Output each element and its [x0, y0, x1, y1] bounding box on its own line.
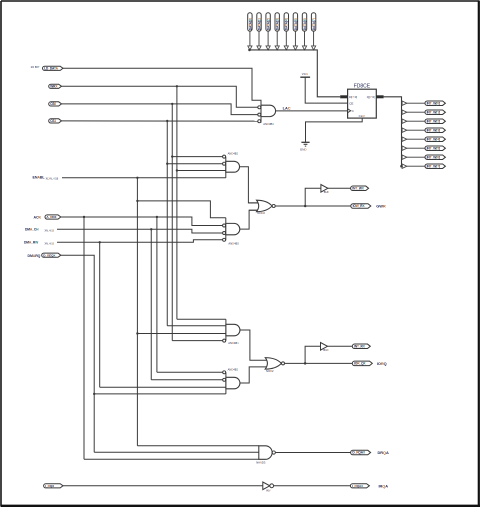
output pin Q2 [425, 119, 445, 124]
svg-text:DATA[1]: DATA[1] [257, 18, 261, 30]
wire tap to output pin Q1 [407, 111, 425, 113]
input pin I2 [49, 84, 62, 88]
bus tap Q0 [402, 101, 407, 105]
node: bus left end junction [248, 49, 251, 52]
svg-text:DATA[4]: DATA[4] [285, 18, 289, 30]
input pin DMARQ [42, 253, 61, 257]
wire column from ACK net (left tap) [83, 217, 85, 459]
wire to U7 input 4 [172, 340, 223, 342]
wire ENABL branch to U4 top input [137, 201, 225, 218]
output pin INT_RX [352, 344, 370, 349]
wire ENABL to gate U3 input 4 [62, 177, 226, 179]
wire to U8 input 2 [151, 379, 223, 381]
pin clock wedge [348, 109, 351, 113]
wire VCC to CE [305, 77, 347, 103]
svg-text:XN_4:1B: XN_4:1B [45, 229, 55, 232]
svg-text:CE: CE [349, 101, 353, 105]
node: tap DMA_RW [99, 241, 101, 243]
wire pin P0 to bus [249, 31, 251, 46]
wire U5 output to output pins [275, 205, 351, 207]
wire tap to output pin Q0 [407, 102, 425, 104]
wire tap to output pin Q2 [407, 120, 425, 122]
node: T DMARQ to U8 [93, 393, 95, 395]
wire column from I3 net [171, 104, 173, 341]
node: T on I3 column [171, 155, 173, 157]
svg-text:INT_W[3]: INT_W[3] [427, 128, 440, 132]
wire column from DMA_CH net [150, 229, 152, 379]
svg-text:DMA_CH: DMA_CH [25, 228, 39, 232]
wire to U8 input 4 [94, 393, 226, 395]
svg-text:IORQ: IORQ [377, 361, 387, 366]
svg-text:AND4B3: AND4B3 [228, 241, 239, 245]
wire ACK [61, 217, 223, 226]
wire tap to output pin Q3 [407, 129, 425, 131]
bus tap Q2 [402, 119, 407, 123]
svg-text:WRX: WRX [50, 85, 58, 89]
wire column from DMA_RW net [99, 242, 101, 387]
svg-text:BUF: BUF [324, 190, 330, 194]
svg-text:IOW_RX: IOW_RX [353, 204, 366, 208]
svg-text:XLXN_4:1B: XLXN_4:1B [46, 177, 59, 180]
input pin I3 [49, 102, 62, 106]
wire pin P2 to bus [267, 31, 269, 46]
wire U3 output to U5 input 1 [240, 167, 259, 203]
node: tap I4 [166, 120, 168, 122]
svg-text:NOR2: NOR2 [257, 211, 265, 215]
svg-text:D_RQAX: D_RQAX [352, 451, 366, 455]
wire to U11 input 2 [94, 451, 259, 453]
and gate U8 AND4B2 [225, 372, 227, 394]
svg-text:IOR_QX: IOR_QX [354, 362, 366, 366]
svg-text:BUF: BUF [323, 348, 329, 352]
output pin Q7 [425, 164, 445, 169]
pin D[7:0] bus stub [340, 95, 347, 98]
svg-text:DATA[7]: DATA[7] [312, 18, 316, 30]
output pin Q4 [425, 137, 445, 142]
svg-text:INT_W[5]: INT_W[5] [427, 146, 440, 150]
output pin Q6 [425, 155, 445, 160]
wire Q[7:0] bus [384, 97, 402, 166]
output pin Q0 [425, 101, 445, 106]
input pin P4 (top header) [284, 13, 288, 31]
input pin ACK [45, 215, 61, 219]
output pin INT_WX [351, 186, 369, 191]
svg-text:DATA[3]: DATA[3] [276, 18, 280, 30]
wire U4 output to U5 input 2 [240, 210, 259, 229]
wire U6 out [328, 187, 351, 189]
wire pin P4 to bus [285, 31, 287, 46]
wire tap to output pin Q5 [407, 147, 425, 149]
wire to U7 input 2 [167, 325, 226, 327]
wire to U11 input 3 [84, 458, 259, 460]
output pin Q5 [425, 146, 445, 151]
wire to U7 input 3 [137, 333, 226, 335]
wire U2 output LAC to FD8CE clock [276, 110, 348, 112]
node: T on I2 column [176, 169, 178, 171]
node: tap DMA_CH [150, 228, 152, 230]
wire branch up to buffer U6 [305, 188, 321, 206]
svg-text:AND3B3: AND3B3 [263, 122, 274, 126]
wire CLR to ground [306, 118, 363, 142]
svg-text:NAND3: NAND3 [256, 461, 266, 465]
input pin I1 [42, 66, 63, 70]
node: buffer branch 2 [304, 362, 307, 365]
bus tap Q6 [402, 155, 407, 159]
wire I1 to gate U2 top input [63, 68, 261, 105]
svg-text:INT_W[6]: INT_W[6] [427, 155, 440, 159]
inverter U12 INV [263, 482, 270, 490]
svg-text:INT_RX: INT_RX [354, 345, 366, 349]
wire U10 out [328, 345, 353, 347]
bus tap Q1 [402, 110, 407, 114]
svg-text:VCC: VCC [302, 72, 309, 76]
svg-text:AND4B2: AND4B2 [228, 368, 239, 372]
svg-text:Q[7:0]: Q[7:0] [367, 95, 375, 99]
node: T ENABL to U7 [136, 332, 138, 334]
svg-text:AND4B1: AND4B1 [228, 341, 239, 345]
node: tap I3 [171, 103, 173, 105]
svg-text:CLR: CLR [359, 114, 366, 118]
input pin P5 (top header) [293, 13, 297, 31]
and gate U7 AND4B1 [225, 319, 227, 340]
input pin P1 (top header) [257, 13, 261, 31]
wire tap to output pin Q4 [407, 138, 425, 140]
svg-text:ACK: ACK [34, 215, 42, 219]
svg-text:AND4B2: AND4B2 [228, 152, 239, 156]
wire to U7 input 1 [177, 318, 226, 320]
wire to U8 input 1 [157, 371, 223, 373]
svg-text:GWR: GWR [376, 204, 386, 209]
wire I4 to gate U2 input 3 [62, 120, 258, 122]
node: tap ENABL [136, 177, 138, 179]
buffer U10 [321, 343, 328, 351]
wire U9 output to output pins [285, 362, 353, 364]
svg-text:NOR2: NOR2 [266, 369, 274, 373]
svg-text:ENABL: ENABL [33, 176, 46, 180]
wire stub U5 in2 [249, 209, 259, 211]
and gate U4 AND4B3 [225, 218, 227, 241]
svg-text:D[7:0]: D[7:0] [349, 95, 357, 99]
flip-flop U1 FD8CE [348, 89, 377, 118]
wire to U8 input 3 [100, 386, 226, 388]
svg-text:D_REQX: D_REQX [43, 253, 56, 257]
input pin P0 (top header) [248, 13, 252, 31]
bus tap Q5 [402, 146, 407, 150]
svg-text:16 BIT: 16 BIT [31, 65, 40, 69]
ground symbol [301, 141, 309, 143]
wire branch up to buffer U10 [305, 346, 320, 363]
output pin DRQA [351, 450, 371, 455]
svg-text:LAC: LAC [283, 105, 291, 110]
svg-text:DATA[2]: DATA[2] [267, 18, 271, 30]
input pin P7 (top header) [311, 13, 315, 31]
svg-text:DRQA: DRQA [378, 450, 390, 455]
wire to U3 input 1 [172, 156, 222, 158]
wire to U3 input 3 [177, 170, 226, 172]
input pin I4 [49, 119, 62, 123]
svg-text:IRQA: IRQA [379, 484, 389, 489]
bus tap Q3 [402, 128, 407, 132]
wire U11 output to DRQA pin [275, 452, 350, 454]
wire DMA_RW [57, 240, 223, 243]
output pin Q1 [425, 110, 445, 115]
svg-text:INV: INV [266, 488, 271, 492]
wire DMARQ to column [61, 255, 94, 452]
svg-text:DATA[5]: DATA[5] [294, 18, 298, 30]
svg-text:GND: GND [300, 148, 308, 152]
node: T on I4 column [166, 163, 168, 165]
input pin P3 (top header) [275, 13, 279, 31]
wire U7 output to U9 input 1 [240, 330, 268, 360]
wire stub U5 in1 [248, 202, 259, 204]
wire pin P5 to bus [294, 31, 296, 46]
wire I3 to gate U2 input 2 [62, 104, 258, 115]
svg-text:DMARQ: DMARQ [28, 254, 41, 258]
svg-text:CS1: CS1 [50, 119, 56, 123]
wire: top data bus to FD8CE D input [250, 50, 341, 97]
buffer U6 [321, 185, 328, 193]
svg-text:DATA[0]: DATA[0] [248, 18, 252, 30]
wire tap to output pin Q6 [407, 156, 425, 158]
svg-text:DATA[6]: DATA[6] [303, 18, 307, 30]
wire column from I2 net [176, 86, 178, 319]
svg-text:DMA_RW: DMA_RW [24, 241, 39, 245]
node: Q bus bottom junction [400, 165, 403, 168]
wire column from ENABL net [136, 178, 138, 446]
svg-text:INT_WX: INT_WX [352, 187, 364, 191]
wire U12 output to IRQA pin [274, 485, 351, 487]
nand gate U11 NAND3 [259, 446, 272, 460]
pin Q[7:0] bus stub [376, 95, 383, 98]
svg-text:CS0: CS0 [50, 102, 56, 106]
input pin IRQ in [44, 484, 63, 488]
nor gate U9 NOR2 [265, 358, 281, 370]
wire DMA_CH [57, 229, 223, 233]
and gate U2 AND3B3 [260, 105, 262, 122]
output pin IRQA [350, 484, 369, 488]
bus tap Q7 [402, 164, 407, 168]
wire to U3 input 2 [167, 163, 222, 165]
output pin Q3 [425, 128, 445, 133]
output pin IORQ [352, 361, 372, 366]
input pin P2 (top header) [266, 13, 270, 31]
wire to inverter U12 [63, 485, 263, 487]
and gate U3 AND4B2 [225, 157, 227, 178]
svg-text:INT_W[7]: INT_W[7] [427, 164, 440, 168]
svg-text:I_RQX: I_RQX [45, 484, 55, 488]
node: buffer branch [304, 205, 307, 208]
svg-text:A_RDX: A_RDX [46, 215, 57, 219]
wire to U11 input 1 [137, 445, 258, 447]
node: tap ACK right [156, 216, 158, 218]
wire I2 to gate U2 input 1 [62, 86, 258, 107]
wire column from ACK net (right tap) [156, 217, 158, 372]
svg-text:LD_DATA: LD_DATA [44, 67, 58, 71]
bus tap Q4 [402, 137, 407, 141]
svg-text:INT_W[0]: INT_W[0] [427, 101, 440, 105]
svg-text:INT_W[4]: INT_W[4] [427, 137, 440, 141]
svg-text:I_RQAX: I_RQAX [352, 484, 364, 488]
wire pin P7 to bus [313, 31, 315, 46]
svg-text:XN_4:1B: XN_4:1B [45, 242, 55, 245]
node: tap ACK left [83, 216, 85, 218]
wire U8 output to U9 input 2 [240, 367, 268, 383]
node: tap I2 [176, 85, 178, 87]
wire tap to output pin Q7 [407, 165, 425, 167]
output pin IOWR [351, 204, 371, 209]
node: T ENABL branch [136, 200, 138, 202]
svg-text:INT_W[1]: INT_W[1] [427, 110, 440, 114]
wire column from I4 net [166, 121, 168, 326]
input pin P6 (top header) [302, 13, 306, 31]
wire pin P3 to bus [276, 31, 278, 46]
svg-text:INT_W[2]: INT_W[2] [427, 119, 440, 123]
wire pin P1 to bus [258, 31, 260, 46]
svg-text:FD8CE: FD8CE [354, 84, 371, 90]
nor gate U5 NOR2 [257, 200, 273, 212]
wire pin P6 to bus [304, 31, 306, 46]
